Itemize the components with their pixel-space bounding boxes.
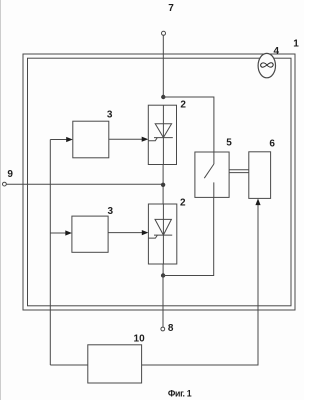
svg-text:Фиг. 1: Фиг. 1 [168, 388, 192, 398]
wire node A to switch block 5 [163, 97, 214, 152]
switch contact: lower lead [213, 182, 215, 197]
node B junction [161, 273, 165, 277]
svg-text:9: 9 [7, 169, 13, 180]
switch contact: blade [204, 164, 214, 178]
svg-text:3: 3 [108, 206, 114, 217]
wire terminal 9 to node C [6, 183, 163, 185]
svg-text:2: 2 [180, 100, 186, 111]
svg-text:6: 6 [269, 138, 275, 149]
lamp 4 on enclosure [258, 53, 275, 77]
svg-text:8: 8 [168, 323, 174, 334]
svg-text:5: 5 [226, 137, 232, 148]
node A junction [161, 95, 165, 99]
block 5 (switch unit) [195, 152, 229, 197]
wire upper block 3 to upper thyristor gate with arrow [109, 138, 144, 140]
node C junction [161, 183, 165, 187]
block 10 (feedback unit) [88, 345, 142, 383]
enclosure outer border [23, 54, 295, 310]
thyristor symbol lower: triangle [155, 219, 171, 235]
wire between upper and lower thyristor blocks [162, 165, 164, 205]
terminal 8 [161, 327, 165, 331]
svg-text:1: 1 [293, 39, 299, 50]
wire block 10 output to block 6 with arrow [142, 203, 258, 365]
wire bus to upper block 3 with arrow [50, 139, 68, 141]
block 6 (actuator) [249, 152, 271, 199]
wire bus to block 10 input [50, 364, 88, 366]
scan edge artifact [0, 0, 2, 400]
thyristor symbol upper: center line [162, 105, 164, 164]
thyristor symbol lower: cathode bar [154, 234, 172, 236]
thyristor symbol lower: gate lead [148, 235, 157, 238]
block 3 lower (control unit) [72, 216, 108, 252]
enclosure inner border [28, 58, 292, 306]
svg-text:2: 2 [180, 197, 186, 208]
thyristor symbol upper: triangle [155, 124, 171, 138]
wire lower block 2 to node B [162, 264, 164, 276]
switch contact: upper lead [213, 152, 215, 164]
thyristor symbol lower: center line [162, 204, 164, 264]
svg-text:7: 7 [168, 3, 174, 14]
thyristor symbol upper: gate lead [148, 138, 157, 141]
wire terminal 7 to node A [162, 35, 164, 97]
wire bus to lower block 3 with arrow [50, 232, 67, 234]
svg-text:4: 4 [274, 46, 280, 57]
wire node B to terminal 8 [162, 276, 164, 328]
block 2 upper (thyristor unit) [148, 105, 176, 164]
vertical bus from input 9 [49, 140, 51, 366]
svg-text:3: 3 [107, 110, 113, 121]
block 3 upper (control unit) [73, 121, 109, 158]
terminal 7 [162, 31, 166, 35]
thyristor symbol upper: cathode bar [154, 137, 173, 139]
mechanical link block 5 to block 6 [229, 169, 249, 171]
wire node B to switch block 5 bottom [163, 197, 214, 275]
lamp 4 infinity mark [261, 63, 274, 67]
wire lower block 3 to lower thyristor gate with arrow [108, 232, 144, 234]
svg-text:10: 10 [134, 333, 146, 344]
block 2 lower (thyristor unit) [148, 204, 176, 264]
terminal 9 [3, 182, 7, 186]
